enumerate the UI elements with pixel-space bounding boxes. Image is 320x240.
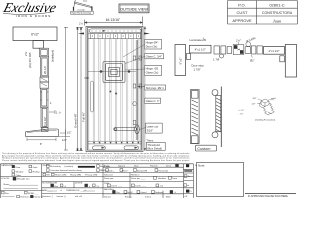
glass junction dark center bbox=[233, 45, 244, 55]
svg-text:Right Hand (Inswing): Right Hand (Inswing) bbox=[72, 12, 92, 15]
svg-text:+ 4 1/2": + 4 1/2" bbox=[238, 110, 245, 112]
svg-text:Dedrew: Dedrew bbox=[155, 191, 163, 194]
svg-text:CONSTRUCTORA: CONSTRUCTORA bbox=[262, 11, 293, 15]
callout box Hinge/Door bbox=[145, 39, 162, 49]
header detail box 6"x2" bbox=[13, 27, 57, 48]
svg-text:No W: No W bbox=[127, 192, 133, 194]
svg-text:Camel: Camel bbox=[140, 192, 147, 194]
handle detail left (flat bar) bbox=[190, 90, 199, 144]
svg-text:Wrought iron: Wrought iron bbox=[17, 177, 30, 180]
svg-text:Glass C. 1": Glass C. 1" bbox=[146, 99, 160, 103]
svg-text:Down par: Down par bbox=[104, 177, 114, 180]
svg-text:Ø1 1/2: Ø1 1/2 bbox=[43, 66, 47, 74]
door vertical bars bbox=[93, 39, 139, 142]
svg-text:(2x) Ø 0.695: (2x) Ø 0.695 bbox=[28, 52, 32, 68]
threshold wedge bbox=[26, 129, 71, 141]
door bottom collar band bbox=[88, 141, 142, 144]
svg-text:(caution): (caution) bbox=[65, 165, 74, 168]
svg-text:APPROVE: APPROVE bbox=[232, 18, 252, 23]
svg-text:Front: Front bbox=[104, 165, 109, 168]
svg-text:Glass C. 3/4": Glass C. 3/4" bbox=[146, 55, 162, 59]
svg-text:02801-C: 02801-C bbox=[269, 2, 284, 7]
svg-text:Outside: Outside bbox=[77, 8, 85, 11]
svg-text:⅞: ⅞ bbox=[60, 189, 62, 192]
right section tube 4x1.5 bbox=[264, 47, 285, 55]
svg-text:2⅞: 2⅞ bbox=[24, 51, 28, 56]
svg-text:Exterior ( ): Exterior ( ) bbox=[43, 195, 53, 198]
svg-text:64 13/16": 64 13/16" bbox=[106, 18, 121, 22]
svg-text:CUST: CUST bbox=[237, 10, 248, 15]
svg-text:4"x1 1/2": 4"x1 1/2" bbox=[268, 49, 279, 53]
glass stack boxes bbox=[214, 46, 232, 58]
svg-text:Note:: Note: bbox=[198, 164, 205, 168]
svg-text:Gate: Gate bbox=[33, 166, 39, 169]
svg-text:6"x2": 6"x2" bbox=[179, 58, 183, 65]
svg-text:3/16": 3/16" bbox=[147, 129, 153, 133]
svg-text:4"x1 1/2": 4"x1 1/2" bbox=[195, 48, 206, 52]
form row1 cell2: glass options bbox=[43, 164, 111, 172]
svg-text:Drive: Drive bbox=[166, 165, 172, 168]
callout box Glass C 1 bbox=[145, 98, 161, 103]
door elevation frame bbox=[86, 26, 143, 151]
svg-text:DIVIDE: DIVIDE bbox=[75, 183, 83, 185]
svg-text:weld: weld bbox=[271, 98, 276, 100]
svg-text:Selected: Selected bbox=[104, 173, 113, 176]
svg-text:Hutton (1R): Hutton (1R) bbox=[55, 174, 67, 177]
top dimension 64 13/16 bbox=[85, 17, 143, 26]
svg-text:Glass (2x): Glass (2x) bbox=[146, 71, 159, 75]
svg-text:Square: Square bbox=[118, 165, 126, 168]
svg-text:THRESHOLD ___ d: THRESHOLD ___ d bbox=[66, 190, 86, 192]
svg-text:Stair: Stair bbox=[134, 165, 139, 168]
svg-text:Other ____: Other ____ bbox=[16, 174, 28, 177]
svg-text:Outside +: Outside + bbox=[105, 170, 115, 173]
svg-text:Camb ____: Camb ____ bbox=[135, 186, 147, 188]
svg-text:Window: Window bbox=[16, 171, 24, 173]
svg-text:6": 6" bbox=[40, 142, 43, 146]
form row2 cell1: color bbox=[1, 177, 30, 186]
svg-text:Privacy (7/8): Privacy (7/8) bbox=[85, 174, 98, 177]
door bottom rail slots bbox=[93, 146, 139, 150]
svg-text:not: not bbox=[160, 185, 163, 188]
svg-text:NOTCH/DOOR: NOTCH/DOOR bbox=[42, 183, 57, 185]
svg-text:Porch/e: Porch/e bbox=[150, 165, 158, 168]
right glass boxes bbox=[245, 46, 262, 54]
right tall tube bbox=[285, 45, 296, 78]
title block table bbox=[228, 1, 298, 25]
svg-text:Interior ( ): Interior ( ) bbox=[34, 196, 44, 198]
door top weatherstrip slot bbox=[89, 29, 141, 33]
note box bbox=[197, 163, 244, 197]
hinge capsule on left stile bbox=[91, 81, 94, 112]
svg-text:Door: Door bbox=[83, 1, 88, 3]
svg-text:1/2": 1/2" bbox=[62, 138, 67, 142]
isometric corner detail bbox=[260, 99, 275, 115]
door handle lever bbox=[114, 125, 140, 134]
jamb vertical section strip bbox=[40, 48, 49, 131]
order form grid bbox=[0, 164, 193, 198]
svg-text:Handles: Handles bbox=[158, 178, 167, 180]
right height dimension line bbox=[144, 27, 146, 151]
svg-text:Exterior ( ): Exterior ( ) bbox=[21, 196, 31, 198]
svg-text:- 1/8": - 1/8" bbox=[239, 114, 244, 116]
svg-text:Towe: Towe bbox=[172, 178, 178, 180]
form row1 cell1: category checkboxes bbox=[1, 164, 40, 177]
svg-text:MS: MS bbox=[47, 175, 51, 177]
svg-text:Door (3x): Door (3x) bbox=[146, 45, 158, 49]
svg-text:Threshold: Threshold bbox=[158, 170, 169, 173]
svg-text:(Box Detail): (Box Detail) bbox=[147, 147, 162, 151]
form cell2 lower sub-rows bbox=[42, 174, 100, 198]
callout box Std prep bbox=[145, 85, 166, 90]
ornament horizontal leader bbox=[88, 71, 136, 73]
svg-text:Saturio: Saturio bbox=[104, 195, 112, 198]
head section: left tall tube bbox=[175, 45, 186, 76]
section cut arrows bbox=[78, 33, 84, 35]
svg-text:Juan: Juan bbox=[273, 18, 282, 23]
svg-text:1 7/8": 1 7/8" bbox=[194, 68, 201, 72]
svg-text:Yes,: Yes, bbox=[116, 192, 121, 194]
swing diagram (right hand inswing) bbox=[73, 0, 93, 11]
svg-text:3/4": 3/4" bbox=[253, 98, 257, 100]
door section tube 4x1.5 bbox=[190, 45, 212, 53]
svg-text:Ø1": Ø1" bbox=[250, 59, 255, 63]
signature line bottom right bbox=[245, 193, 296, 195]
door top dentil row bbox=[88, 34, 142, 39]
svg-text:Both: Both bbox=[166, 195, 171, 198]
svg-text:P.O.: P.O. bbox=[238, 2, 246, 7]
form right narrow column bbox=[186, 164, 189, 167]
svg-text:Interio: Interio bbox=[145, 195, 152, 198]
svg-text:CATEGORY: CATEGORY bbox=[1, 164, 14, 167]
callout box Hinge/Glass bbox=[145, 65, 162, 75]
custom label bbox=[196, 145, 217, 151]
svg-text:6"x2": 6"x2" bbox=[31, 33, 40, 37]
lock stile detail bbox=[133, 40, 142, 140]
svg-text:OUTSIDE VIEW: OUTSIDE VIEW bbox=[120, 8, 148, 12]
outside view label bbox=[119, 4, 149, 13]
door stop notch left bbox=[187, 54, 191, 60]
svg-text:Std prep. Ø2 1: Std prep. Ø2 1 bbox=[146, 86, 165, 90]
form middle column rows bbox=[104, 165, 178, 199]
svg-text:Overall 48": Overall 48" bbox=[74, 113, 78, 128]
svg-text:Custom: Custom bbox=[197, 147, 210, 151]
svg-text:IF APPROVED PLEASE SIGN HERE: IF APPROVED PLEASE SIGN HERE bbox=[248, 195, 288, 198]
bar drop finials below ornament bbox=[109, 91, 111, 93]
svg-text:1/2": 1/2" bbox=[67, 131, 72, 135]
svg-text:2⅞": 2⅞" bbox=[236, 39, 241, 43]
svg-text:COLOR:: COLOR: bbox=[1, 178, 10, 180]
svg-text:swivel ____: swivel ____ bbox=[111, 186, 123, 188]
svg-text:No frosting: No frosting bbox=[50, 165, 61, 168]
svg-text:1 ⅞: 1 ⅞ bbox=[56, 111, 61, 115]
form row3 cell1 bbox=[5, 193, 43, 199]
svg-text:Hel/Do it: Hel/Do it bbox=[131, 173, 140, 176]
svg-text:Full 40": Full 40" bbox=[81, 112, 85, 122]
logo Exclusive Iron Doors bbox=[1, 0, 58, 18]
svg-text:Door: Door bbox=[16, 166, 21, 169]
disclaimer fine print bbox=[2, 152, 190, 162]
svg-text:1 7/8: 1 7/8 bbox=[213, 58, 220, 62]
svg-text:Heavy (3R): Heavy (3R) bbox=[70, 175, 81, 177]
isometric side notes bbox=[238, 110, 245, 116]
callout box Laser cut bbox=[146, 123, 163, 133]
svg-text:IRON & DOORS: IRON & DOORS bbox=[16, 14, 51, 18]
svg-text:Please review carefully and si: Please review carefully and sign where i… bbox=[2, 159, 190, 162]
svg-text:Interior ( ): Interior ( ) bbox=[57, 195, 67, 198]
svg-text:Railing: Railing bbox=[33, 171, 40, 173]
svg-text:Bumper/M: Bumper/M bbox=[137, 170, 147, 173]
svg-text:Done par ____: Done par ____ bbox=[131, 177, 146, 180]
svg-text:std. sill: std. sill bbox=[75, 195, 82, 198]
svg-text:(molding R variation): (molding R variation) bbox=[255, 119, 275, 122]
callout box Glass C 3/4 bbox=[145, 54, 164, 59]
svg-text:Exterio: Exterio bbox=[125, 195, 133, 198]
svg-text:(sidelight): (sidelight) bbox=[51, 50, 55, 62]
center ornament nested squares bbox=[103, 62, 125, 83]
svg-text:Flat: Flat bbox=[54, 185, 58, 188]
svg-text:Exclusive: Exclusive bbox=[1, 0, 58, 15]
svg-text:4"x1 1/2": 4"x1 1/2" bbox=[43, 117, 47, 127]
left vertical dimension lines bbox=[64, 27, 83, 151]
handle detail right (round posts) bbox=[212, 87, 221, 148]
svg-text:AWE ____: AWE ____ bbox=[42, 189, 53, 192]
door stop notch right bbox=[280, 56, 285, 62]
svg-text:ROML ___: ROML ___ bbox=[28, 193, 39, 195]
svg-text:Overview demand transfer along: Overview demand transfer along bbox=[50, 169, 82, 172]
svg-text:1/2": 1/2" bbox=[252, 104, 256, 106]
leader lines to callouts bbox=[123, 45, 146, 130]
